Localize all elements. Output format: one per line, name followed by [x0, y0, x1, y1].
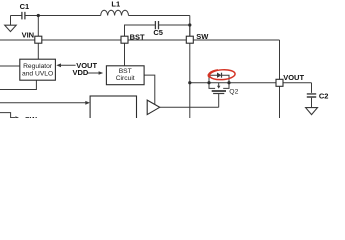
svg-text:C2: C2 — [319, 92, 329, 101]
svg-text:Q2: Q2 — [229, 89, 238, 96]
svg-text:VIN: VIN — [22, 31, 35, 40]
svg-text:Regulator: Regulator — [23, 63, 53, 70]
svg-text:L1: L1 — [111, 0, 120, 9]
svg-text:C1: C1 — [20, 2, 30, 11]
svg-text:VDD: VDD — [73, 68, 89, 77]
svg-text:VOUT: VOUT — [283, 73, 304, 82]
svg-text:Circuit: Circuit — [116, 75, 135, 82]
svg-text:BST: BST — [130, 33, 145, 42]
svg-text:SW: SW — [25, 115, 38, 118]
svg-text:and UVLO: and UVLO — [22, 70, 53, 77]
svg-text:BST: BST — [119, 68, 132, 75]
svg-text:SW: SW — [196, 32, 209, 41]
svg-text:C5: C5 — [153, 28, 163, 37]
